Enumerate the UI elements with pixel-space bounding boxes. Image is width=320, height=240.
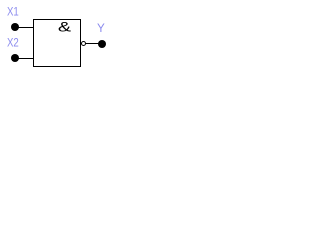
wire Y output [85, 43, 102, 44]
svg-text:X2: X2 [7, 36, 19, 50]
terminal node X2 [11, 54, 19, 62]
NAND gate U1 body [34, 20, 81, 67]
svg-text:X1: X1 [7, 5, 19, 19]
wire X2 input [15, 58, 33, 59]
svg-text:Y: Y [97, 21, 105, 35]
terminal node Y [98, 40, 106, 48]
wire X1 input [15, 27, 33, 28]
inversion bubble [82, 42, 86, 46]
svg-text:&: & [58, 19, 72, 35]
terminal node X1 [11, 23, 19, 31]
